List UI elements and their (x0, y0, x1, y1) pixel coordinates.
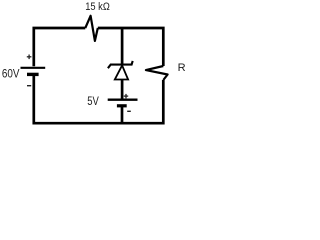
plus sign battery V1 (27, 55, 32, 60)
wire middle branch between diode and 5V battery (121, 79, 124, 99)
svg-text:15 kΩ: 15 kΩ (85, 1, 110, 13)
wire middle branch lower (121, 107, 124, 124)
zener diode D1 triangle (115, 65, 128, 79)
wire middle branch upper (121, 28, 124, 64)
plus sign battery V2 (124, 94, 128, 98)
wire right-bottom-left segment (34, 74, 164, 123)
svg-text:5V: 5V (87, 96, 99, 108)
zener diode D1 cathode bar (108, 61, 133, 68)
resistor R (146, 66, 168, 80)
minus sign battery V1 (27, 85, 31, 87)
wire top-left segment (34, 28, 86, 66)
minus sign battery V2 (127, 110, 131, 112)
resistor 15 kOhm (85, 16, 98, 41)
battery V1 60V positive plate (21, 67, 46, 69)
battery V1 60V negative plate (27, 73, 39, 76)
svg-text:60V: 60V (2, 68, 20, 80)
battery V2 5V negative plate (117, 104, 127, 107)
wire top-right segment (98, 28, 164, 66)
svg-text:R: R (178, 62, 186, 74)
battery V2 5V positive plate (108, 99, 138, 101)
